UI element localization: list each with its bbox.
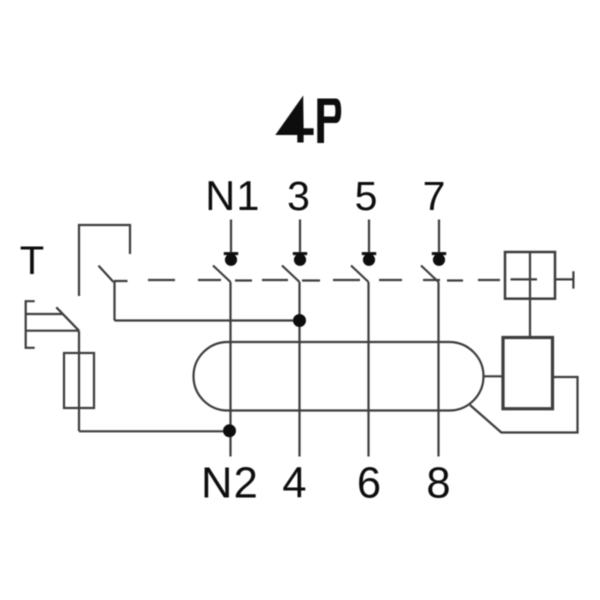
test button lower line: [26, 330, 79, 332]
test button blade: [56, 307, 79, 330]
switch blade pole 5: [351, 266, 369, 283]
terminal contact dot 7: [433, 254, 445, 266]
terminal contact dot 3: [294, 254, 306, 266]
trip linkage bracket top-left: [79, 225, 130, 296]
wire: top lead of terminal N1: [230, 220, 232, 253]
svg-text:N2: N2: [201, 460, 259, 508]
svg-text:7: 7: [423, 173, 446, 219]
terminal bar N1: [224, 252, 238, 255]
solenoid internal horizontal: [511, 278, 538, 280]
wire: CT secondary to relay left: [484, 375, 504, 377]
solenoid right tick: [572, 271, 574, 288]
svg-text:5: 5: [355, 173, 378, 219]
junction dot on pole 3: [293, 314, 306, 327]
wire: test return to N2: [79, 430, 229, 432]
wire: pole 3 conductor (3 to 4): [298, 282, 300, 457]
terminal bar 7: [432, 252, 446, 255]
test button fixed contact line: [26, 313, 63, 315]
switch blade pole 7: [421, 266, 439, 283]
title 4P: [275, 96, 341, 144]
switch blade pole N: [213, 266, 231, 283]
relay box: [503, 338, 553, 409]
test supply switch blade: [99, 266, 114, 282]
test resistor R: [64, 353, 94, 408]
wire: top lead of terminal 5: [368, 220, 370, 253]
trip solenoid box: [505, 252, 555, 299]
terminal contact dot N1: [225, 254, 237, 266]
svg-text:6: 6: [357, 460, 381, 508]
wire: through resistor down: [78, 331, 80, 432]
switch blade pole 3: [282, 266, 300, 283]
svg-text:4: 4: [282, 460, 306, 508]
wire: test supply down from blade: [113, 282, 115, 321]
solenoid plunger vertical: [529, 252, 531, 338]
wire: pole N conductor (N1 to N2): [229, 282, 231, 457]
solenoid right stub: [555, 278, 573, 280]
wire: pole 5 conductor (5 to 6): [367, 282, 369, 457]
wire: relay right return loop to CT: [470, 377, 578, 433]
wire: pole 7 conductor (7 to 8): [437, 282, 439, 457]
terminal bar 3: [293, 252, 307, 255]
wire: top lead of terminal 7: [438, 220, 440, 253]
current transformer core (toroid): [194, 342, 484, 411]
svg-text:T: T: [20, 239, 44, 283]
junction dot on pole N: [223, 424, 236, 437]
terminal bar 5: [362, 252, 376, 255]
svg-text:3: 3: [287, 173, 310, 219]
terminal contact dot 5: [363, 254, 375, 266]
wire: test supply horizontal to pole 3: [115, 319, 300, 321]
svg-text:N1: N1: [205, 172, 260, 219]
test button actuator bracket: [26, 301, 35, 348]
wire: top lead of terminal 3: [299, 220, 301, 253]
svg-text:8: 8: [426, 460, 450, 508]
dashed mechanical coupling line: [114, 280, 500, 281]
